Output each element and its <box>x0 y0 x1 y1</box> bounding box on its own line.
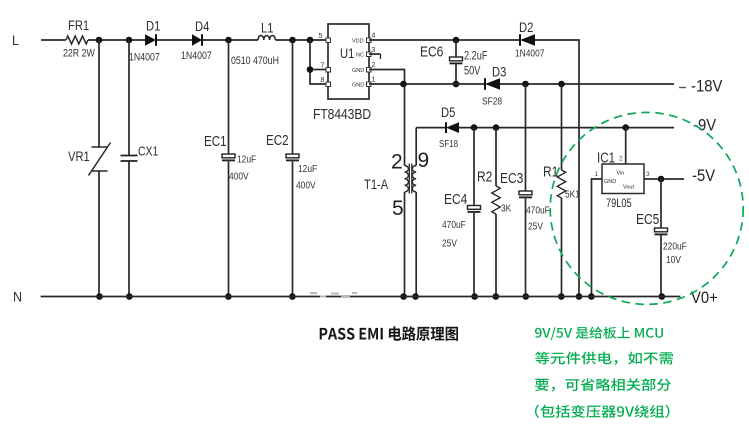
svg-text:-5V: -5V <box>692 167 716 185</box>
svg-text:400V: 400V <box>229 171 249 183</box>
svg-text:1N4007: 1N4007 <box>515 48 544 60</box>
capacitor CX1 <box>128 40 130 155</box>
wire IC1 GND to bottom rail <box>592 179 603 297</box>
capacitor EC2 <box>292 40 294 154</box>
resistor FR1 <box>66 36 88 44</box>
svg-text:0510 470uH: 0510 470uH <box>231 55 279 67</box>
junction EC5 bottom <box>659 293 666 300</box>
svg-text:25V: 25V <box>528 221 544 233</box>
wire D2 to corner and down <box>535 40 579 297</box>
svg-text:4: 4 <box>372 33 376 40</box>
junction VR1 top <box>96 37 103 44</box>
svg-text:5: 5 <box>392 197 404 220</box>
svg-text:25V: 25V <box>442 238 458 250</box>
svg-text:L1: L1 <box>261 20 273 35</box>
capacitor EC5 <box>660 179 662 228</box>
ic U1 body <box>328 24 369 99</box>
svg-text:FR1: FR1 <box>68 18 89 33</box>
highlight ellipse (9V/5V section) <box>550 112 743 304</box>
inductor L1 <box>258 36 275 41</box>
svg-text:3: 3 <box>372 47 376 54</box>
junction EC2 bottom <box>289 293 296 300</box>
svg-text:EC4: EC4 <box>444 191 468 208</box>
svg-text:GND: GND <box>352 68 364 74</box>
junction IC1 GND bottom <box>588 293 595 300</box>
svg-text:2.2uF: 2.2uF <box>464 51 488 63</box>
svg-text:U1: U1 <box>340 46 354 61</box>
svg-text:VR1: VR1 <box>68 149 90 164</box>
svg-text:CX1: CX1 <box>138 144 158 158</box>
svg-text:EC3: EC3 <box>500 170 523 187</box>
svg-text:D2: D2 <box>519 20 533 35</box>
erase smudges near bottom rail <box>310 292 357 298</box>
capacitor EC1 <box>228 40 230 154</box>
svg-text:SF18: SF18 <box>439 138 458 149</box>
wire U1 VDD to D2 <box>369 39 520 41</box>
junction EC3 top <box>522 81 529 88</box>
capacitor EC4 <box>473 128 475 206</box>
svg-text:12uF: 12uF <box>237 154 256 166</box>
svg-text:R1: R1 <box>543 163 558 180</box>
junction R1 bottom <box>558 293 565 300</box>
annotation green text line 1 <box>535 327 663 340</box>
svg-text:2: 2 <box>372 62 376 69</box>
junction IC1 input branch <box>622 124 629 131</box>
svg-text:5K1: 5K1 <box>565 189 580 201</box>
label -18V <box>679 87 686 89</box>
svg-text:50V: 50V <box>464 66 480 78</box>
svg-text:79L05: 79L05 <box>606 198 632 210</box>
svg-text:D4: D4 <box>195 19 209 34</box>
capacitor EC6 <box>455 40 457 57</box>
junction VR1 bottom <box>96 293 103 300</box>
svg-text:SF28: SF28 <box>482 96 502 108</box>
svg-text:Vout: Vout <box>623 185 634 191</box>
junction R2 bottom <box>493 293 500 300</box>
svg-text:1N4007: 1N4007 <box>129 52 160 64</box>
resistor R1 <box>561 84 563 170</box>
svg-text:400V: 400V <box>296 180 316 192</box>
svg-text:1: 1 <box>595 171 599 178</box>
junction transformer primary top <box>400 81 407 88</box>
wire U1 GND pin2 elbow <box>369 70 405 85</box>
junction R1 top <box>558 81 565 88</box>
resistor R2 <box>495 128 497 186</box>
svg-text:N: N <box>13 289 22 305</box>
svg-text:1: 1 <box>372 77 376 84</box>
junction transformer secondary bottom <box>412 293 419 300</box>
title PASS EMI schematic label <box>320 326 458 341</box>
annotation green text line 2 <box>535 352 673 365</box>
svg-text:220uF: 220uF <box>663 241 687 253</box>
ic IC1 body <box>602 164 644 194</box>
svg-text:VDD: VDD <box>352 39 364 45</box>
svg-text:22R 2W: 22R 2W <box>63 48 95 60</box>
junction transformer pin5 bottom <box>400 293 407 300</box>
junction CX1 bottom <box>126 293 133 300</box>
junction EC5 top <box>658 176 665 183</box>
junction EC4 top <box>471 124 478 131</box>
wire bottom rail <box>41 296 681 298</box>
wire D4 to L1 <box>202 39 258 41</box>
transformer T1-A primary <box>404 84 406 166</box>
svg-text:7: 7 <box>321 63 325 70</box>
wire transformer pin9 to D5 <box>416 127 446 129</box>
junction EC6 bottom <box>453 81 460 88</box>
wire L input to FR1 <box>41 39 66 41</box>
svg-text:2: 2 <box>619 156 623 163</box>
svg-text:GND: GND <box>352 83 364 89</box>
transformer T1-A secondary <box>412 166 416 192</box>
ic U1 NC stub <box>369 53 381 55</box>
wire U1 pin7/pin8 branch <box>310 40 326 84</box>
diode D5 <box>446 122 459 133</box>
svg-text:GND: GND <box>604 179 616 185</box>
svg-text:10V: 10V <box>666 254 682 266</box>
svg-text:1N4007: 1N4007 <box>181 50 212 62</box>
svg-text:D3: D3 <box>492 64 506 79</box>
svg-text:EC5: EC5 <box>636 211 659 228</box>
diode D4 <box>192 34 202 46</box>
svg-text:8: 8 <box>321 77 325 84</box>
svg-text:FT8443BD: FT8443BD <box>313 106 371 123</box>
svg-text:L: L <box>12 32 19 48</box>
wire L1 to U1 pin5 <box>275 39 328 41</box>
diode D2 <box>520 34 535 46</box>
varistor VR1 <box>98 40 100 147</box>
wire U1 GND pin1 to -18V <box>369 83 485 85</box>
svg-text:9: 9 <box>418 149 430 172</box>
wire -9V to IC1 Vin <box>625 128 627 164</box>
wire D5 to -9V terminal <box>459 127 674 129</box>
junction EC3 bottom <box>523 293 530 300</box>
svg-text:IC1: IC1 <box>597 149 615 166</box>
junction EC1 top <box>225 37 232 44</box>
transformer T1-A core <box>409 164 412 194</box>
svg-text:T1-A: T1-A <box>364 177 389 192</box>
junction EC1 bottom <box>225 293 232 300</box>
svg-text:3K: 3K <box>501 203 512 215</box>
svg-text:470uF: 470uF <box>442 219 466 231</box>
junction EC4 bottom <box>471 293 478 300</box>
wire FR1 to D1 <box>88 39 145 41</box>
diode D1 <box>145 34 156 46</box>
junction R2 top <box>493 124 500 131</box>
svg-text:12uF: 12uF <box>298 163 317 175</box>
svg-text:3: 3 <box>646 171 650 178</box>
junction U1 pin branch <box>307 37 314 44</box>
diode D3 <box>485 78 500 90</box>
svg-text:R2: R2 <box>477 168 492 185</box>
ic U1 pin squares <box>326 38 331 43</box>
junction EC6 top <box>453 37 460 44</box>
svg-text:-18V: -18V <box>691 78 723 96</box>
svg-text:470uF: 470uF <box>526 205 550 217</box>
annotation green text line 3 <box>535 378 671 391</box>
svg-text:5: 5 <box>319 33 323 40</box>
junction CX1 top <box>126 37 133 44</box>
junction D2 return bottom <box>576 293 583 300</box>
svg-text:NC: NC <box>356 53 364 59</box>
junction U1 pin7 <box>307 66 314 73</box>
svg-text:EC6: EC6 <box>420 43 443 60</box>
svg-text:Vin: Vin <box>617 171 625 177</box>
junction EC2 top <box>289 37 296 44</box>
svg-text:D1: D1 <box>146 18 160 33</box>
wire D1 to D4 <box>156 39 192 41</box>
svg-text:EC2: EC2 <box>266 132 289 149</box>
wire IC1 Vout to -5V terminal <box>644 178 684 180</box>
annotation green text line 4 <box>535 405 670 418</box>
svg-text:2: 2 <box>391 151 403 174</box>
svg-text:D5: D5 <box>441 105 455 120</box>
svg-text:EC1: EC1 <box>204 133 227 150</box>
capacitor EC3 <box>525 84 527 191</box>
